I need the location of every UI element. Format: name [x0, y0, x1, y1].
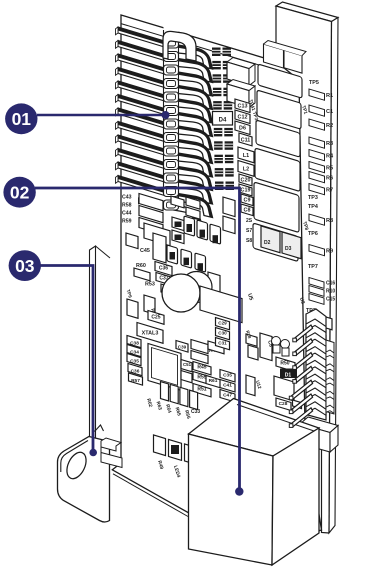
svg-text:R2: R2	[326, 123, 333, 129]
svg-text:R1: R1	[326, 93, 333, 99]
svg-text:TP6: TP6	[308, 231, 318, 237]
rear panel board front face (top part)	[276, 6, 332, 100]
RJ45 jack box top face	[189, 399, 320, 457]
svg-text:R9: R9	[326, 249, 333, 255]
svg-text:R53: R53	[145, 282, 155, 288]
cluster C25 R56	[127, 299, 138, 318]
bracket strip	[90, 246, 96, 448]
svg-text:D6: D6	[239, 126, 246, 132]
svg-text:R50: R50	[280, 361, 289, 367]
main board front face	[112, 15, 321, 541]
connector centre ladder	[164, 27, 179, 195]
svg-text:L2: L2	[243, 167, 249, 173]
svg-text:C29: C29	[218, 320, 227, 325]
svg-text:R61: R61	[209, 378, 218, 384]
svg-text:S8: S8	[246, 238, 252, 244]
svg-text:D2: D2	[264, 240, 271, 246]
svg-text:R58: R58	[122, 203, 132, 209]
components bottom of rear column	[307, 330, 315, 343]
svg-text:C9: C9	[244, 198, 251, 204]
main board bottom edge inner line	[113, 474, 188, 517]
svg-text:R57: R57	[131, 378, 140, 384]
svg-text:C30: C30	[218, 330, 227, 335]
svg-text:C41: C41	[223, 382, 232, 388]
svg-text:C1: C1	[326, 109, 333, 115]
rear panel lower strip	[322, 430, 330, 533]
svg-text:C44: C44	[122, 211, 132, 217]
LED boxes D2 D3	[261, 226, 280, 253]
svg-text:D4: D4	[219, 118, 227, 124]
caps C29 C30 C31	[216, 318, 230, 330]
svg-text:TP3: TP3	[308, 195, 318, 201]
callout line 01	[37, 114, 163, 117]
svg-text:D3: D3	[285, 246, 292, 252]
svg-text:C45: C45	[140, 248, 150, 254]
svg-text:R60: R60	[136, 263, 146, 269]
header pins	[295, 325, 313, 341]
cluster C49 R46 R45 R55 R51	[176, 340, 188, 352]
pin header housing J2	[306, 309, 326, 420]
svg-text:S7: S7	[246, 228, 252, 234]
callout badge 02	[3, 177, 35, 208]
svg-text:C15: C15	[326, 297, 335, 303]
svg-text:XTAL3: XTAL3	[142, 331, 159, 337]
svg-text:2S: 2S	[246, 218, 253, 224]
callout badge 01	[5, 103, 37, 134]
top header housing	[264, 44, 284, 68]
cluster R61 C35 C41 C47	[206, 375, 221, 387]
svg-text:C39: C39	[178, 345, 187, 350]
svg-text:TP7: TP7	[308, 264, 318, 270]
svg-text:C33: C33	[191, 409, 200, 415]
svg-text:R59: R59	[122, 219, 132, 225]
cluster R50 D1 C28	[246, 334, 257, 346]
RJ45 jack box front face	[189, 434, 274, 565]
svg-text:R3: R3	[326, 141, 333, 147]
callout line 02	[35, 188, 240, 490]
svg-text:01: 01	[12, 109, 32, 129]
diode D4	[213, 112, 233, 126]
svg-text:C43: C43	[122, 195, 132, 201]
svg-text:C51: C51	[183, 362, 192, 367]
microcontroller U2 + bypass caps	[137, 322, 163, 343]
connector pin hooks	[178, 45, 213, 69]
ethernet PHY U5	[200, 286, 242, 323]
svg-text:C31: C31	[218, 340, 227, 345]
svg-text:R6: R6	[326, 176, 333, 182]
svg-text:R5: R5	[326, 166, 333, 172]
svg-text:C20: C20	[241, 178, 251, 184]
svg-text:R8: R8	[326, 218, 333, 224]
svg-text:C28: C28	[279, 401, 288, 407]
module column U-row	[258, 64, 302, 98]
svg-text:C12: C12	[238, 115, 248, 121]
LED1 group	[310, 314, 319, 326]
svg-text:C47: C47	[223, 392, 232, 398]
svg-text:R51: R51	[197, 386, 206, 392]
electrolytic capacitors C+	[181, 272, 212, 303]
callout badge 03	[9, 250, 41, 281]
components right mid	[223, 197, 235, 217]
svg-text:TP5: TP5	[309, 80, 319, 86]
svg-text:C8: C8	[244, 208, 251, 214]
rear panel board top face	[276, 2, 338, 22]
inductor cubes L3 L4	[227, 58, 255, 69]
cluster R49 LED4 R48	[154, 435, 166, 456]
svg-text:TP4: TP4	[308, 204, 318, 210]
transistor rows Q1-Q6	[184, 216, 195, 236]
RJ45 jack box right face	[272, 428, 319, 565]
svg-text:C35: C35	[130, 358, 139, 364]
connector pin blades	[118, 27, 165, 47]
resistor column R1-R10 TPs	[309, 89, 325, 100]
connector top latch	[163, 31, 196, 61]
resistor array R62-R66	[161, 382, 169, 401]
svg-text:C35: C35	[223, 372, 232, 378]
svg-text:R55: R55	[197, 374, 206, 380]
svg-text:C19: C19	[241, 188, 251, 194]
rear panel right edge	[329, 18, 338, 534]
svg-text:C13: C13	[238, 104, 248, 110]
svg-text:C25: C25	[151, 315, 160, 321]
bracket tab	[58, 437, 110, 523]
svg-text:R4: R4	[326, 154, 334, 160]
svg-text:02: 02	[10, 182, 30, 202]
svg-text:R7: R7	[326, 188, 333, 194]
svg-text:C16: C16	[326, 281, 335, 287]
bottom connector J1	[300, 417, 338, 433]
svg-text:L1: L1	[243, 153, 249, 159]
connector solder pad column	[212, 48, 221, 57]
svg-text:R10: R10	[326, 289, 335, 295]
callout line 03	[40, 266, 93, 452]
svg-text:C11: C11	[241, 138, 251, 144]
svg-text:R45: R45	[197, 364, 206, 370]
svg-text:D1: D1	[285, 373, 292, 379]
main board inner top line	[121, 24, 276, 71]
bracket clip	[101, 438, 121, 451]
svg-text:03: 03	[15, 256, 35, 276]
svg-text:C36: C36	[159, 266, 168, 272]
capacitor / inductor column C13-C8	[235, 99, 250, 112]
